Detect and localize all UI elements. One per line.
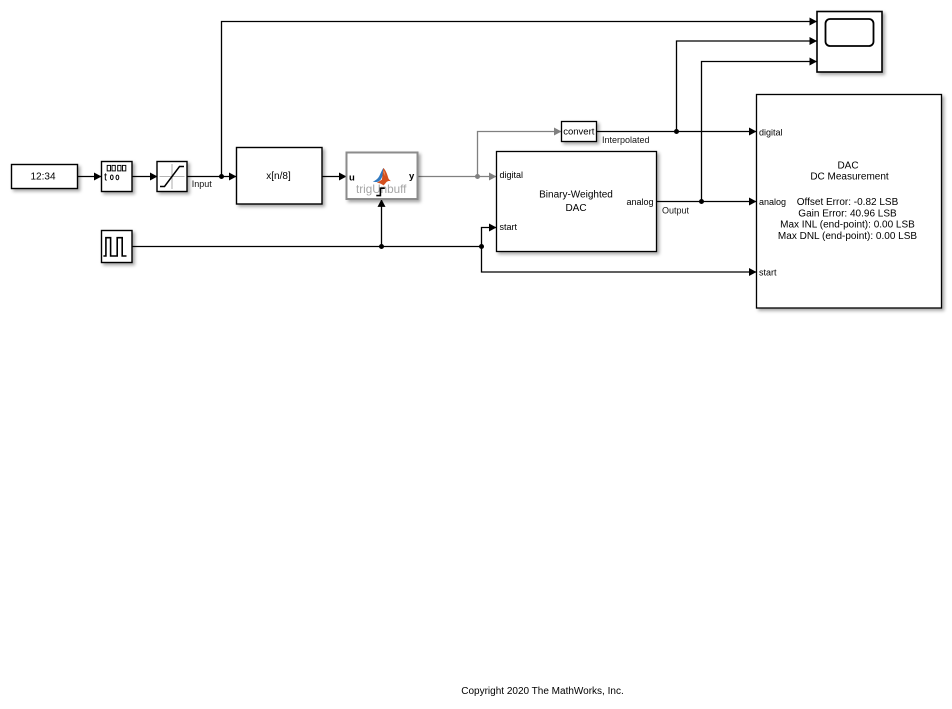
wire bbox=[133, 246, 482, 248]
svg-text:Copyright 2020 The MathWorks,: Copyright 2020 The MathWorks, Inc. bbox=[461, 686, 624, 697]
MATLAB logo bbox=[373, 168, 391, 185]
wire bbox=[482, 247, 757, 277]
junction bbox=[475, 174, 480, 179]
wire bbox=[482, 224, 497, 247]
svg-text:y: y bbox=[409, 171, 415, 182]
svg-text:Binary-Weighted: Binary-Weighted bbox=[539, 190, 613, 201]
svg-text:trigUnbuff: trigUnbuff bbox=[356, 183, 407, 196]
svg-text:Interpolated: Interpolated bbox=[602, 135, 650, 145]
wire bbox=[222, 18, 818, 177]
wire bbox=[657, 198, 757, 206]
svg-text:start: start bbox=[500, 222, 518, 232]
svg-text:x[n/8]: x[n/8] bbox=[266, 171, 291, 182]
wire bbox=[323, 173, 347, 181]
trigger symbol bbox=[376, 188, 385, 195]
wire bbox=[418, 173, 497, 181]
wire bbox=[702, 58, 818, 202]
block Downsample x[n/8] bbox=[237, 148, 323, 205]
block Digital Clock 12:34 bbox=[12, 165, 78, 189]
wire bbox=[188, 173, 237, 181]
junction bbox=[219, 174, 224, 179]
block Counter bbox=[102, 162, 133, 192]
wire bbox=[78, 173, 102, 181]
svg-text:digital: digital bbox=[500, 170, 524, 180]
block DAC DC Measurement bbox=[757, 95, 942, 309]
block Binary-Weighted DAC bbox=[497, 152, 657, 252]
wire bbox=[378, 199, 386, 246]
svg-text:DC Measurement: DC Measurement bbox=[810, 172, 889, 183]
svg-text:analog: analog bbox=[626, 197, 653, 207]
svg-text:start: start bbox=[759, 267, 777, 277]
block Scope bbox=[817, 12, 882, 73]
svg-text:u: u bbox=[349, 172, 355, 183]
svg-text:12:34: 12:34 bbox=[30, 172, 55, 183]
svg-text:t: t bbox=[104, 171, 107, 183]
svg-text:Output: Output bbox=[662, 205, 690, 215]
junction bbox=[699, 199, 704, 204]
junction bbox=[674, 129, 679, 134]
svg-text:Max DNL (end-point): 0.00 LSB: Max DNL (end-point): 0.00 LSB bbox=[778, 231, 917, 242]
block Data Type Conversion convert bbox=[562, 122, 597, 142]
block Saturation bbox=[157, 162, 187, 192]
svg-text:Offset Error: -0.82 LSB: Offset Error: -0.82 LSB bbox=[797, 197, 899, 208]
block MATLAB Function trigUnbuff bbox=[347, 153, 418, 200]
svg-text:Max INL (end-point): 0.00 LSB: Max INL (end-point): 0.00 LSB bbox=[780, 220, 915, 231]
wire bbox=[133, 173, 158, 181]
svg-text:Gain Error: 40.96 LSB: Gain Error: 40.96 LSB bbox=[798, 208, 897, 219]
block Pulse Generator bbox=[102, 231, 133, 263]
svg-text:analog: analog bbox=[759, 197, 786, 207]
svg-text:convert: convert bbox=[563, 126, 595, 137]
svg-text:Input: Input bbox=[192, 179, 213, 189]
wire bbox=[677, 37, 818, 132]
junction bbox=[379, 244, 384, 249]
wire bbox=[597, 128, 757, 136]
wire bbox=[478, 128, 562, 177]
junction bbox=[479, 244, 484, 249]
svg-text:DAC: DAC bbox=[565, 203, 586, 214]
svg-text:DAC: DAC bbox=[837, 161, 858, 172]
svg-text:digital: digital bbox=[759, 127, 783, 137]
